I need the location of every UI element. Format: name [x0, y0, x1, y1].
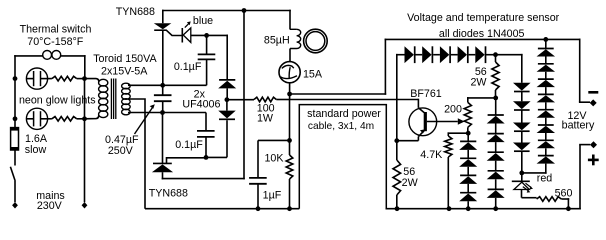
- svg-text:85µH: 85µH: [264, 35, 290, 47]
- svg-text:200: 200: [444, 103, 462, 115]
- svg-text:70°C-158°F: 70°C-158°F: [27, 36, 84, 48]
- svg-text:red: red: [537, 172, 553, 184]
- svg-text:56: 56: [403, 166, 415, 178]
- svg-text:UF4006: UF4006: [182, 98, 220, 110]
- svg-text:0.1µF: 0.1µF: [175, 139, 203, 151]
- svg-text:4.7K: 4.7K: [420, 149, 443, 161]
- svg-text:Thermal switch: Thermal switch: [20, 23, 92, 35]
- svg-text:560: 560: [555, 187, 573, 199]
- svg-text:1µF: 1µF: [263, 189, 282, 201]
- svg-text:blue: blue: [193, 15, 213, 27]
- svg-text:neon glow lights: neon glow lights: [19, 94, 96, 106]
- svg-text:0.1µF: 0.1µF: [174, 61, 202, 73]
- svg-text:TYN688: TYN688: [116, 6, 155, 18]
- svg-text:230V: 230V: [37, 200, 63, 212]
- svg-text:all diodes 1N4005: all diodes 1N4005: [439, 28, 525, 40]
- svg-text:1W: 1W: [257, 113, 274, 125]
- svg-text:BF761: BF761: [410, 88, 442, 100]
- svg-text:2W: 2W: [470, 76, 487, 88]
- svg-text:2x15V-5A: 2x15V-5A: [101, 65, 148, 77]
- svg-text:Toroid 150VA: Toroid 150VA: [93, 53, 157, 65]
- svg-text:slow: slow: [25, 144, 47, 156]
- svg-text:Voltage and temperature sensor: Voltage and temperature sensor: [407, 12, 560, 24]
- svg-text:cable, 3x1, 4m: cable, 3x1, 4m: [308, 121, 374, 132]
- svg-text:250V: 250V: [108, 145, 134, 157]
- svg-text:10K: 10K: [264, 152, 284, 164]
- svg-text:TYN688: TYN688: [149, 188, 188, 200]
- svg-text:2W: 2W: [402, 177, 419, 189]
- svg-text:15A: 15A: [303, 69, 323, 81]
- svg-text:battery: battery: [562, 119, 595, 131]
- svg-text:standard power: standard power: [307, 108, 381, 120]
